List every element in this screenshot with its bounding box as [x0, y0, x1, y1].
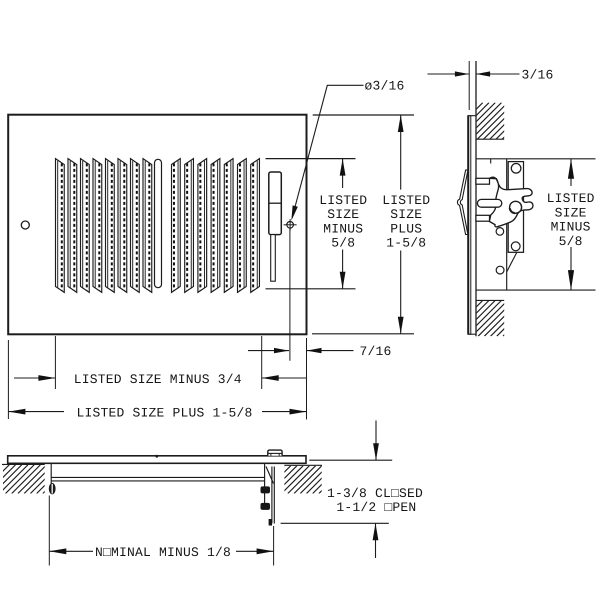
svg-text:3/16: 3/16: [521, 68, 553, 83]
svg-text:LISTED SIZE MINUS 3/4: LISTED SIZE MINUS 3/4: [74, 372, 242, 387]
svg-text:7/16: 7/16: [360, 344, 392, 359]
svg-text:LISTED SIZE PLUS 1-5/8: LISTED SIZE PLUS 1-5/8: [77, 405, 253, 420]
svg-text:5/8: 5/8: [559, 234, 583, 249]
svg-text:MINUS: MINUS: [551, 220, 591, 235]
svg-text:1-5/8: 1-5/8: [386, 236, 426, 251]
svg-text:SIZE: SIZE: [555, 205, 587, 220]
svg-text:5/8: 5/8: [331, 236, 355, 251]
svg-text:LISTED: LISTED: [382, 193, 430, 208]
svg-text:PLUS: PLUS: [390, 221, 422, 236]
svg-text:SIZE: SIZE: [327, 207, 359, 222]
svg-text:MINUS: MINUS: [323, 221, 363, 236]
svg-text:LISTED: LISTED: [319, 193, 367, 208]
svg-text:N□MINAL MINUS 1/8: N□MINAL MINUS 1/8: [95, 545, 231, 560]
svg-text:ø3/16: ø3/16: [365, 79, 405, 94]
svg-text:SIZE: SIZE: [390, 207, 422, 222]
svg-text:LISTED: LISTED: [547, 191, 595, 206]
svg-text:1-1/2 □PEN: 1-1/2 □PEN: [336, 500, 416, 515]
